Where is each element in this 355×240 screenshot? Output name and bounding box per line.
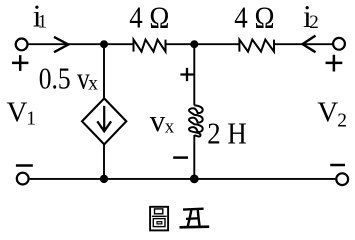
svg-text:4 Ω: 4 Ω bbox=[129, 1, 169, 35]
svg-text:2: 2 bbox=[309, 12, 319, 33]
svg-text:4 Ω: 4 Ω bbox=[234, 1, 274, 35]
svg-text:V: V bbox=[7, 97, 28, 129]
svg-text:x: x bbox=[165, 118, 175, 138]
svg-text:x: x bbox=[88, 74, 98, 95]
svg-text:2: 2 bbox=[337, 111, 347, 132]
svg-text:1: 1 bbox=[38, 12, 48, 33]
svg-text:V: V bbox=[317, 97, 338, 129]
svg-text:0.5 v: 0.5 v bbox=[39, 60, 90, 95]
svg-text:v: v bbox=[150, 103, 166, 138]
svg-text:2 H: 2 H bbox=[207, 117, 247, 151]
svg-text:1: 1 bbox=[26, 109, 36, 130]
